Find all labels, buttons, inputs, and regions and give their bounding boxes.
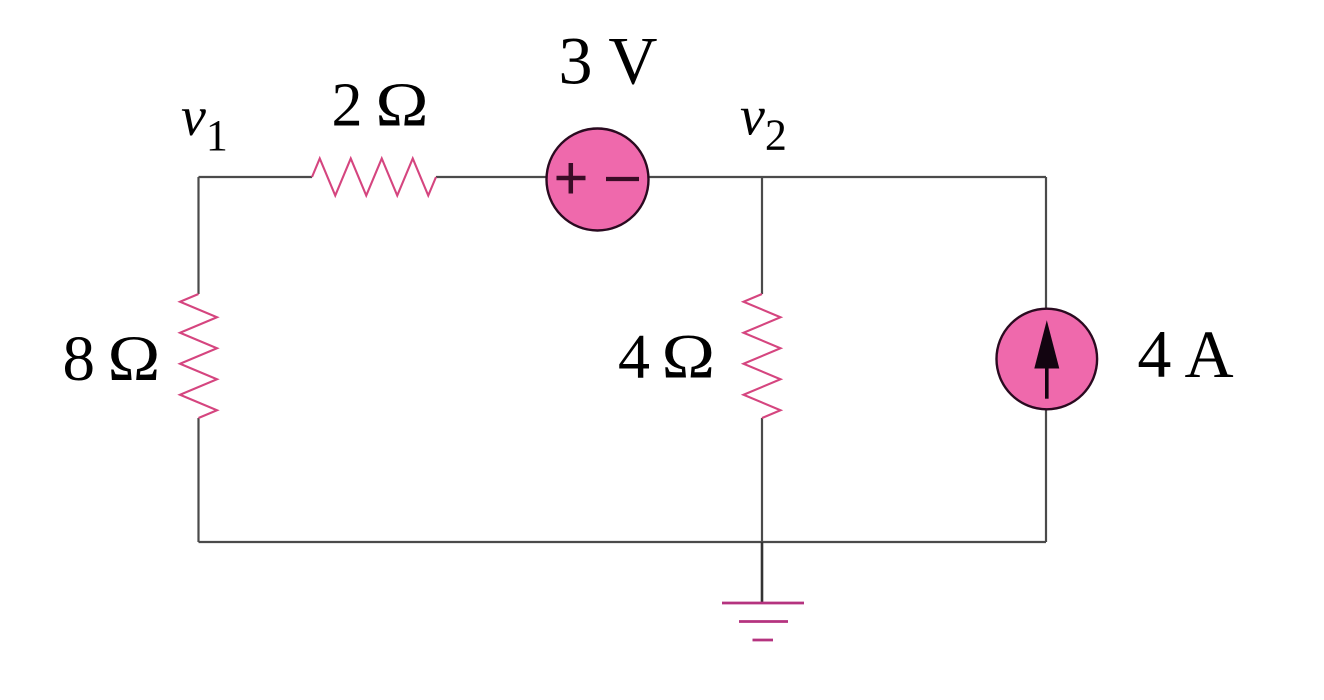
resistor 8 ohm (left vertical zigzag) bbox=[180, 294, 217, 418]
svg-text:Ω: Ω bbox=[375, 71, 428, 139]
svg-text:2: 2 bbox=[332, 71, 363, 139]
svg-text:3 V: 3 V bbox=[559, 22, 658, 98]
wire bottom: bottom-left to bottom-right corner bbox=[199, 541, 1047, 543]
wire right: top-right down to bottom-right corner bbox=[1045, 177, 1047, 542]
current source arrow head bbox=[1034, 320, 1059, 368]
svg-text:8: 8 bbox=[63, 323, 96, 395]
wire middle: v2 down through 4-ohm to bottom wire bbox=[761, 177, 763, 542]
resistor 2 ohm (horizontal zigzag) bbox=[312, 159, 436, 196]
wire left: v1 down to bottom-left corner bbox=[197, 177, 199, 542]
current source arrow shaft bbox=[1045, 362, 1049, 399]
voltage source plus sign bbox=[557, 163, 586, 194]
current source I1 4A (circle) bbox=[997, 309, 1098, 410]
resistor 4 ohm (middle vertical zigzag) bbox=[744, 294, 781, 418]
svg-text:v1: v1 bbox=[181, 86, 228, 160]
wire top: v1 to v2 to top-right corner bbox=[199, 176, 1047, 178]
ground bbox=[722, 603, 804, 640]
svg-text:v2: v2 bbox=[740, 86, 787, 160]
voltage source minus sign bbox=[606, 177, 639, 181]
svg-text:4: 4 bbox=[618, 321, 650, 392]
voltage source V1 3V (circle) bbox=[547, 129, 649, 231]
svg-text:4 A: 4 A bbox=[1137, 316, 1233, 392]
svg-text:Ω: Ω bbox=[108, 323, 161, 395]
svg-text:Ω: Ω bbox=[662, 321, 716, 392]
wire ground stem bbox=[761, 542, 764, 603]
